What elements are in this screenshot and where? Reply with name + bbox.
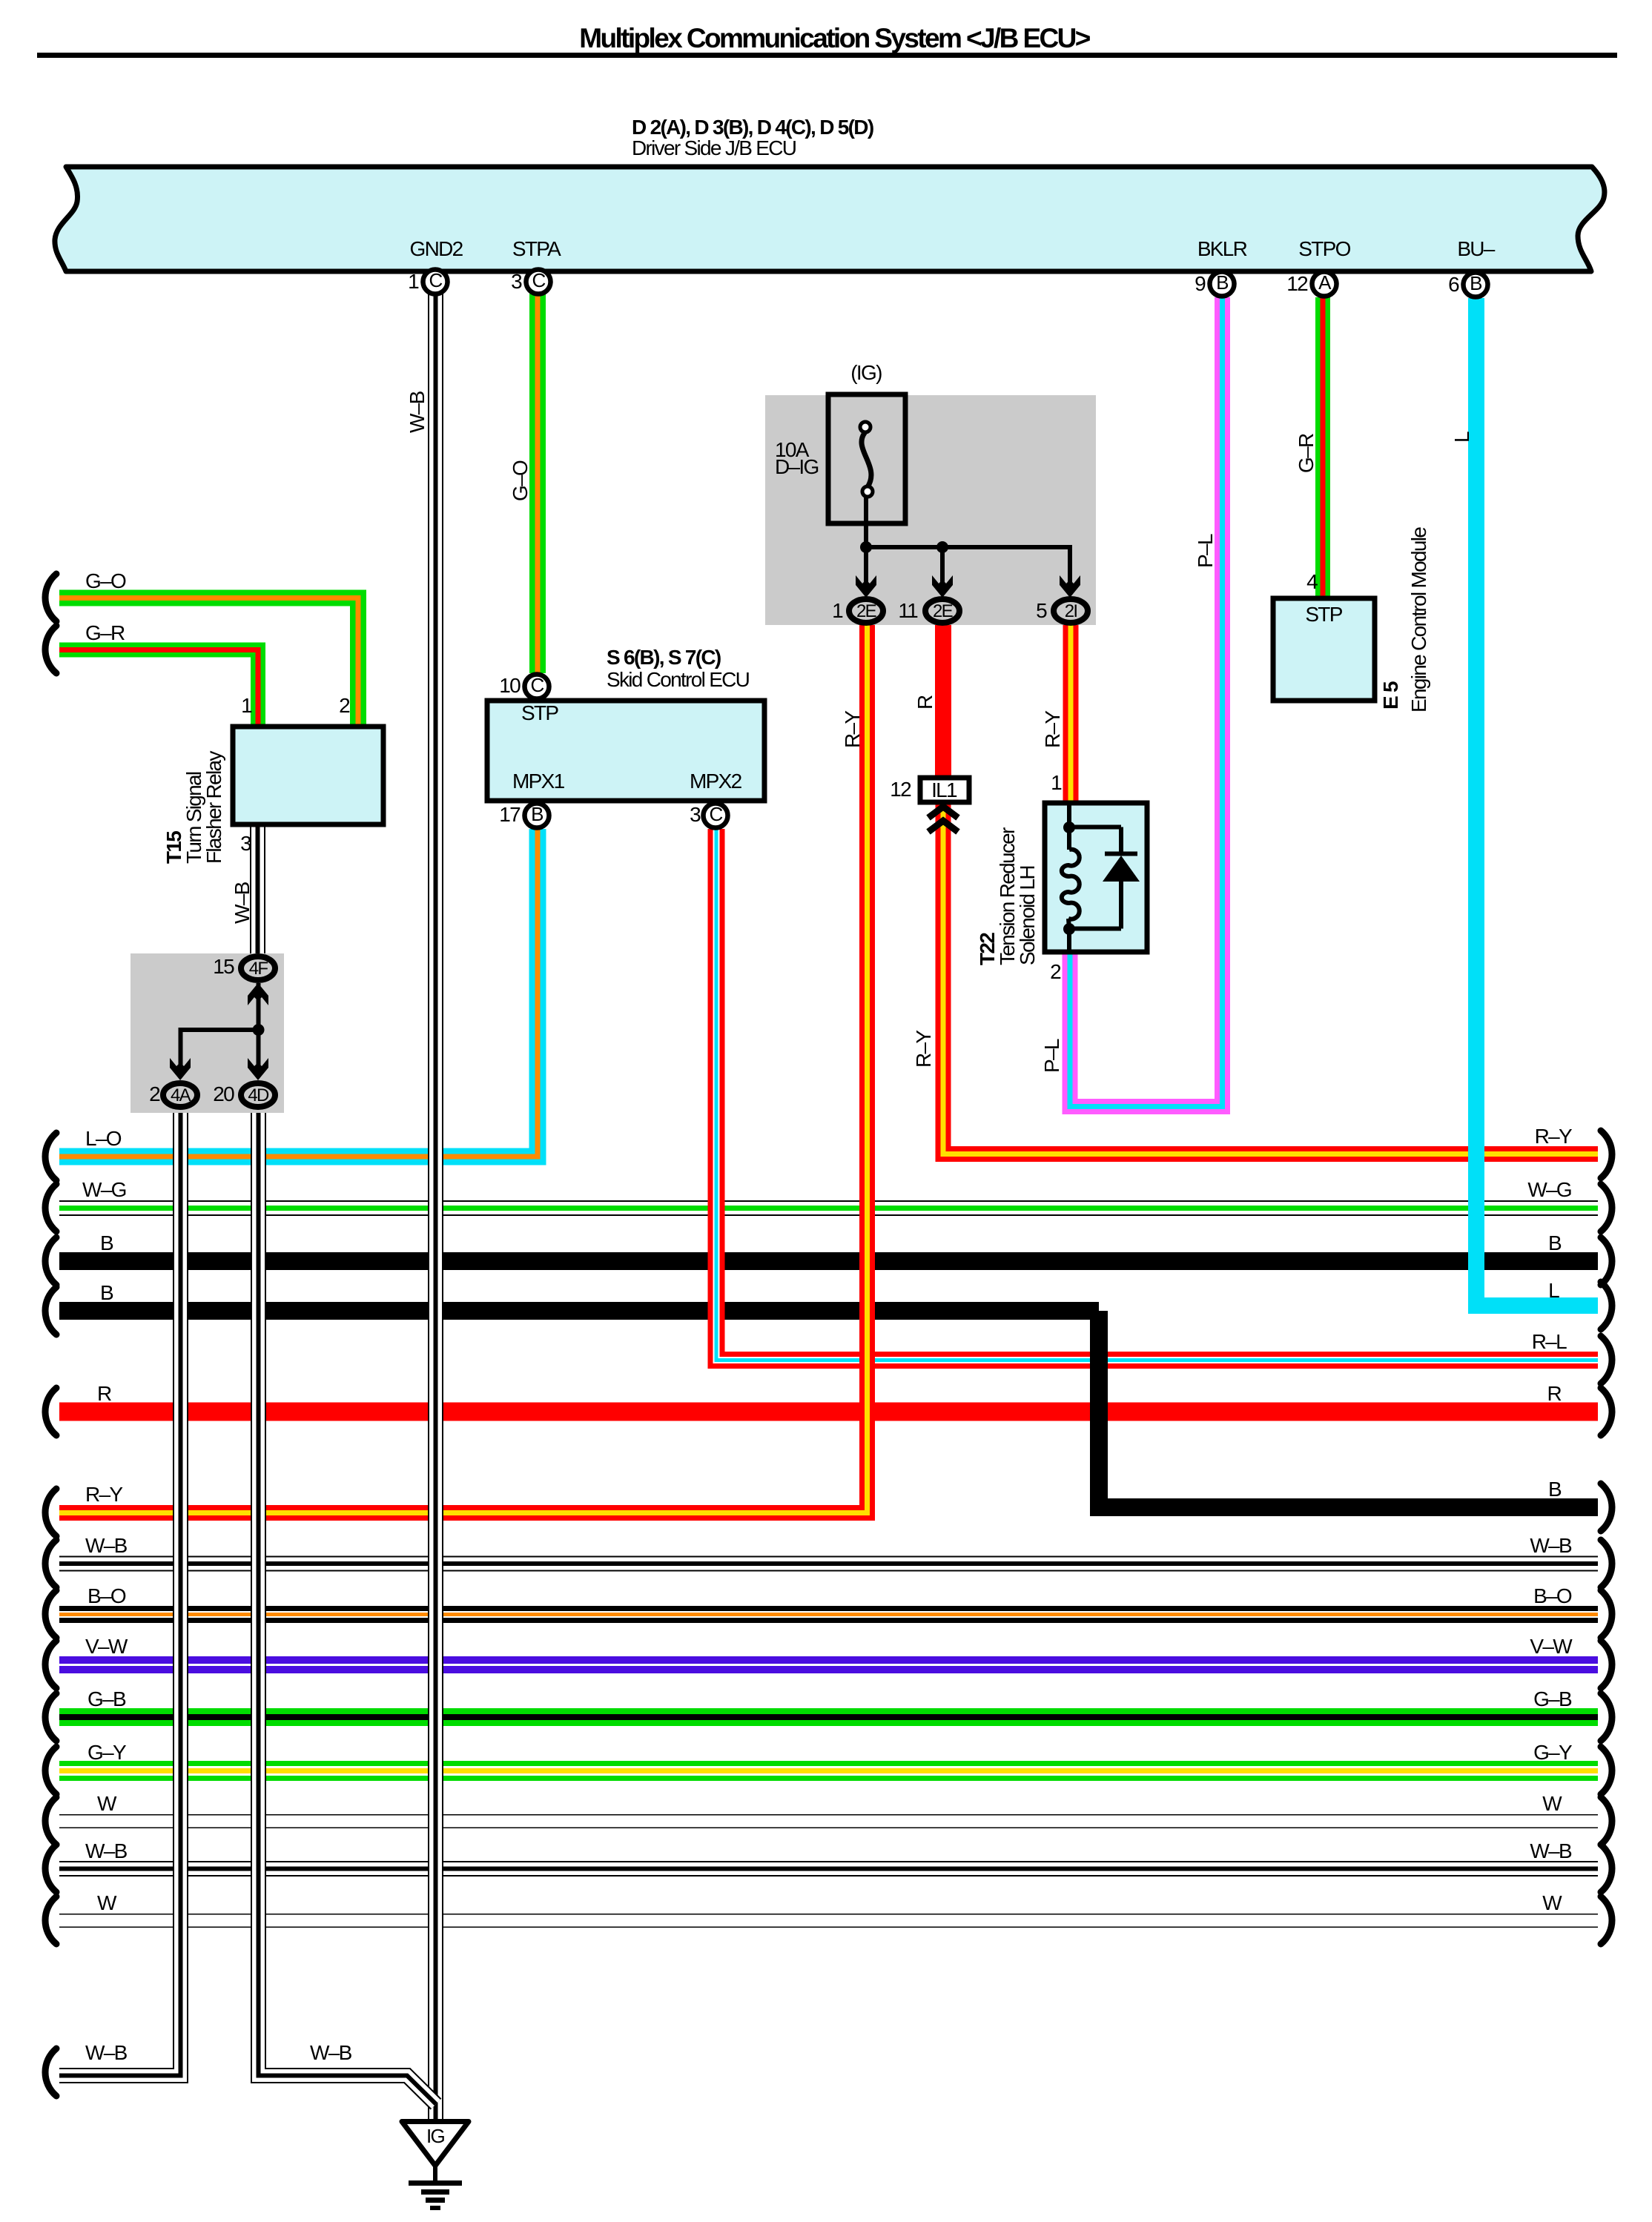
IL1 labels bbox=[890, 779, 911, 800]
wire R-Y 2I pin5 to T22 bbox=[1063, 623, 1079, 804]
Turn Signal Flasher Relay box T15 bbox=[233, 727, 383, 824]
wire W-B bus 1 bbox=[59, 1556, 1598, 1572]
brace left G-O bbox=[45, 574, 56, 621]
wire G-O to relay pin2 bbox=[59, 598, 358, 727]
junction block gray box (4F/4A/4D) bbox=[130, 953, 284, 1113]
wire B-O bus bbox=[59, 1606, 1598, 1623]
brace left L-O bbox=[45, 1133, 56, 1180]
solenoid coil + diode internals bbox=[1062, 805, 1140, 951]
brace right B-O bbox=[1601, 1590, 1612, 1638]
wire W-B from 4A bbox=[59, 1108, 181, 2076]
brace right B1 bbox=[1601, 1237, 1612, 1285]
brace right G-Y bbox=[1601, 1747, 1612, 1794]
brace left W-B2 bbox=[45, 1845, 56, 1892]
wire fuse output through junction to 2E pin1 bbox=[864, 497, 868, 583]
brace left B-O bbox=[45, 1590, 56, 1638]
Driver Side J/B ECU box D2/D3/D4/D5 bbox=[55, 167, 1605, 271]
brace left B2 bbox=[45, 1287, 56, 1335]
wire B bus 2 step down part bbox=[1099, 1311, 1598, 1507]
arrow into 2I pin5 bbox=[1060, 575, 1080, 598]
wire R-Y below IL1 bbox=[943, 802, 1598, 1154]
brace right W-B1 bbox=[1601, 1540, 1612, 1587]
wire W-B relay pin3 to 4F bbox=[250, 824, 265, 955]
2E/2I pin labels bbox=[832, 601, 842, 621]
ground label bbox=[426, 2126, 444, 2146]
wire G-R to relay pin1 bbox=[59, 650, 258, 727]
junction dot 4F bbox=[253, 1024, 265, 1036]
title bbox=[579, 24, 1089, 52]
brace right V-W bbox=[1601, 1641, 1612, 1688]
connector 9(B) BKLR bbox=[1210, 272, 1235, 297]
wire junction branch to 4A bbox=[181, 1030, 259, 1065]
brace left G-Y bbox=[45, 1747, 56, 1794]
wire P-L T22 pin2 to BKLR bbox=[1070, 297, 1223, 1107]
junction dot A bbox=[860, 541, 872, 553]
wire G-O STPA to Skid STP bbox=[529, 294, 546, 673]
arrow into 4D bbox=[248, 1058, 268, 1080]
wire R-Y from 2E pin1 bbox=[59, 623, 868, 1513]
connector 12(A) STPO bbox=[1312, 272, 1337, 297]
wire junction horizontal to 2I bbox=[866, 547, 1070, 583]
arrow up into 4F bbox=[248, 983, 268, 1005]
brace left W2 bbox=[45, 1897, 56, 1944]
connector oval 2E pin1 bbox=[849, 599, 883, 623]
chevron in-line connector below IL1 bbox=[928, 807, 958, 832]
left side wire labels bbox=[85, 571, 125, 592]
ground IG bbox=[402, 2122, 469, 2209]
Engine Control Module box E5 bbox=[1273, 598, 1375, 701]
wire stub to 2E pin11 bbox=[940, 547, 945, 583]
connector 1(C) GND2 bbox=[423, 270, 448, 294]
junction dot B bbox=[936, 541, 948, 553]
brace left R bbox=[45, 1388, 56, 1435]
connector oval 4D bbox=[241, 1083, 275, 1107]
connector 3(C) MPX2 bbox=[704, 804, 728, 828]
brace right B2 bbox=[1601, 1484, 1612, 1531]
brace left V-W bbox=[45, 1641, 56, 1688]
wire R-L MPX2 bbox=[716, 829, 1598, 1360]
Tension Reducer Solenoid box T22 bbox=[1045, 803, 1147, 952]
fuse labels bbox=[850, 363, 881, 383]
connector oval 4F bbox=[241, 956, 275, 980]
relay pin labels bbox=[241, 695, 251, 716]
connector oval 4A bbox=[163, 1083, 197, 1107]
wire W bus 1 bbox=[59, 1814, 1598, 1828]
vertical wire color labels bbox=[407, 391, 428, 433]
T22 solenoid name bbox=[977, 828, 1037, 965]
wire W-G bus bbox=[59, 1200, 1598, 1216]
pin name labels on J/B ECU bbox=[410, 239, 463, 259]
connector oval 2E pin11 bbox=[925, 599, 959, 623]
connector 3(C) STPA bbox=[526, 270, 551, 294]
brace right W-G bbox=[1601, 1184, 1612, 1231]
brace left W-B1 bbox=[45, 1540, 56, 1587]
right side wire labels bbox=[1535, 1126, 1571, 1147]
header D2/D3/D4/D5 labels bbox=[632, 117, 873, 138]
wire W-B from 4D diagonal to GND2 bbox=[259, 1108, 437, 2104]
brace left W1 bbox=[45, 1797, 56, 1845]
wire G-R STPO to E5 bbox=[1315, 297, 1330, 599]
connector 6(B) BU- bbox=[1464, 273, 1488, 297]
wire B bus 1 bbox=[59, 1252, 1598, 1270]
wire R 2E pin11 to IL1 bbox=[935, 623, 951, 778]
brace right R-Y bbox=[1601, 1131, 1612, 1178]
junction block gray box (fuse D-IG) bbox=[765, 395, 1096, 625]
wire L-O MPX1 bbox=[59, 829, 538, 1157]
wire R bus bbox=[59, 1403, 1598, 1421]
connector 10(C) STP skid bbox=[525, 675, 549, 699]
connector 17(B) MPX1 bbox=[525, 804, 549, 828]
brace left B1 bbox=[45, 1237, 56, 1285]
E5 labels bbox=[1306, 572, 1317, 592]
wire V-W bus bbox=[59, 1656, 1598, 1673]
arrow into 4A bbox=[170, 1058, 191, 1080]
4F/4A/4D labels bbox=[213, 956, 234, 977]
brace right W1 bbox=[1601, 1797, 1612, 1845]
brace left R-Y bbox=[45, 1489, 56, 1536]
brace left W-G bbox=[45, 1184, 56, 1231]
connector oval 2I pin5 bbox=[1054, 599, 1088, 623]
fuse 10A D-IG bbox=[828, 394, 905, 523]
brace right W-B2 bbox=[1601, 1845, 1612, 1892]
wire G-B bus bbox=[59, 1708, 1598, 1726]
brace right R bbox=[1601, 1388, 1612, 1435]
skid control labels bbox=[607, 647, 721, 668]
pin numbers on J/B ECU bbox=[408, 271, 418, 292]
E5 name bbox=[1381, 682, 1401, 710]
Skid Control ECU box S6/S7 bbox=[487, 701, 764, 801]
brace left G-R bbox=[45, 626, 56, 673]
arrow into 2E pin11 bbox=[932, 575, 953, 598]
wire W-B GND2 to ground bbox=[428, 290, 443, 2122]
wire W bus 2 bbox=[59, 1914, 1598, 1928]
T22 pin labels bbox=[1051, 773, 1061, 793]
wire W-B bus 2 bbox=[59, 1861, 1598, 1877]
arrow into 2E pin1 bbox=[856, 575, 876, 598]
wire B bus 2 left part bbox=[59, 1302, 1099, 1320]
title underline bbox=[37, 53, 1617, 58]
brace right G-B bbox=[1601, 1693, 1612, 1741]
brace right L bbox=[1601, 1282, 1612, 1329]
T15 relay name bbox=[164, 752, 224, 864]
connector IL1 bbox=[920, 778, 969, 802]
brace right R-L bbox=[1601, 1336, 1612, 1383]
wire L BU- to right bbox=[1476, 298, 1598, 1306]
wire G-Y bus bbox=[59, 1761, 1598, 1781]
brace left G-B bbox=[45, 1693, 56, 1741]
wire 4F arrow down to 4D arrow bbox=[257, 983, 261, 1065]
brace right W2 bbox=[1601, 1897, 1612, 1944]
brace left W-B bottom bbox=[45, 2049, 56, 2096]
